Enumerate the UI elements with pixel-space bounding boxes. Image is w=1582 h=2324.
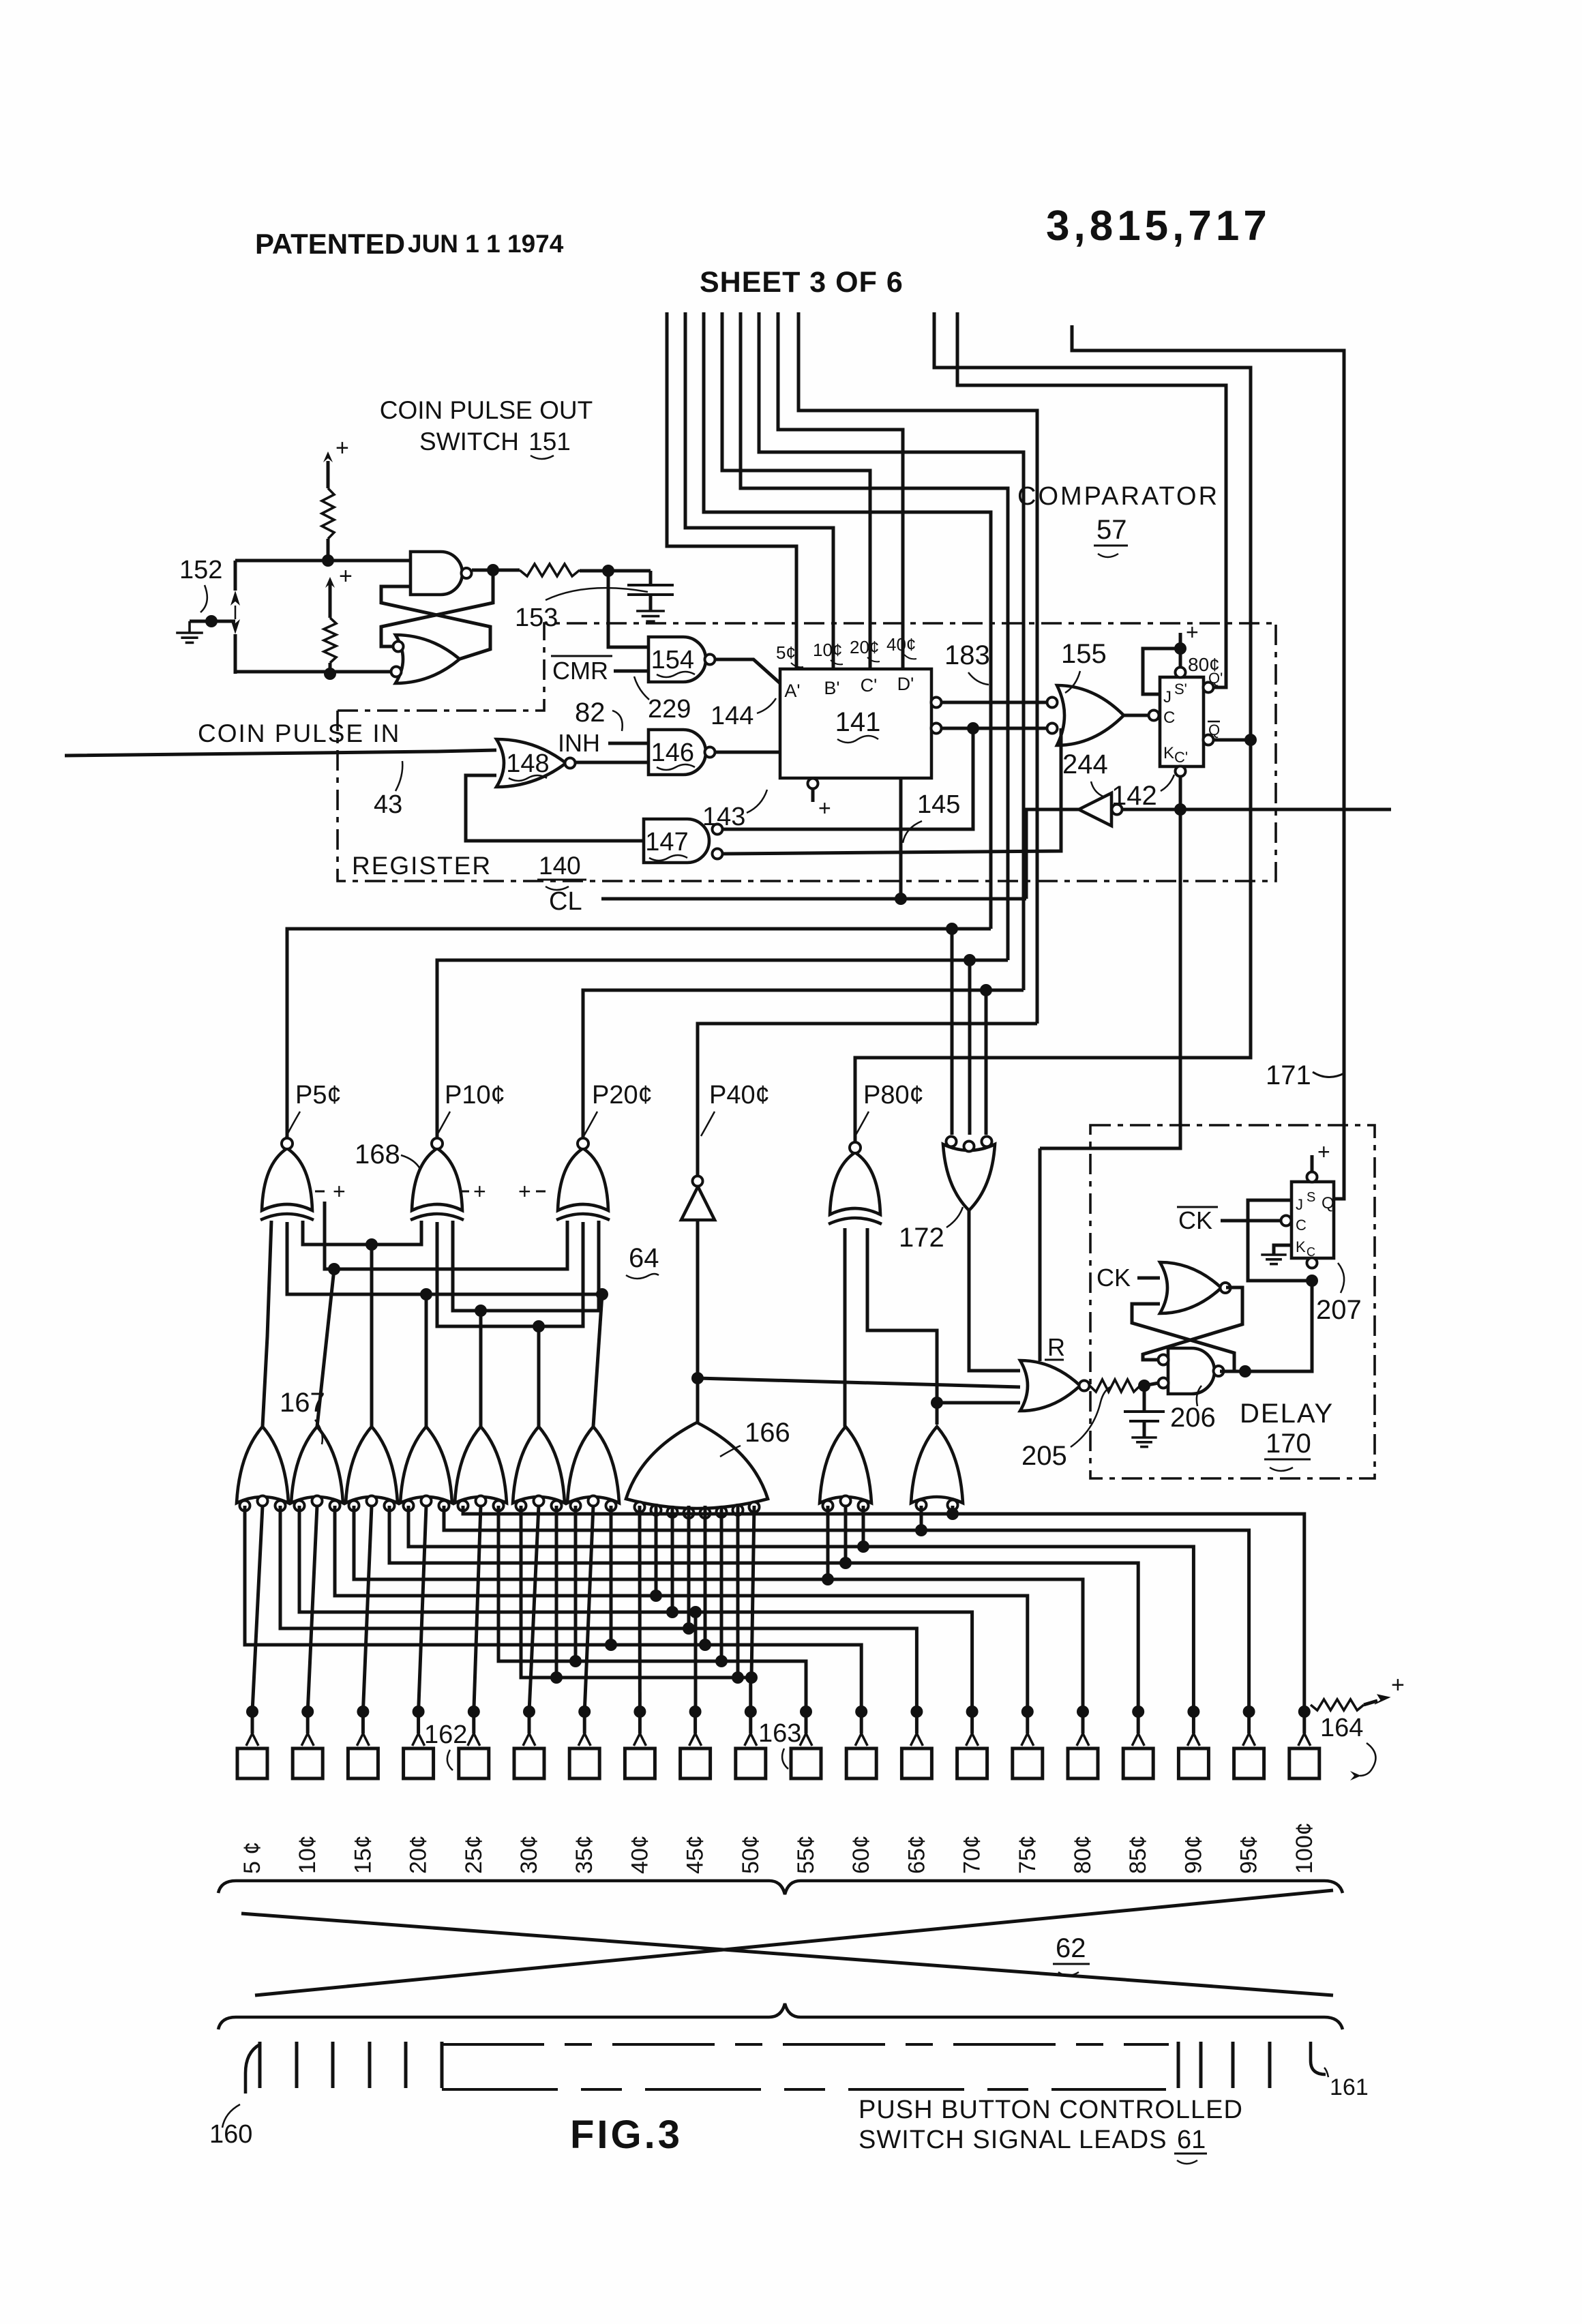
square riser 45c: [693, 1712, 697, 1733]
P80 right input path: [867, 1228, 937, 1425]
NAND gate 146: [648, 730, 706, 775]
square riser 60c: [860, 1712, 863, 1733]
plus mark P10: [460, 1191, 469, 1193]
svg-text:SWITCH SIGNAL LEADS: SWITCH SIGNAL LEADS: [859, 2126, 1167, 2154]
junction dot square 10 riser: [745, 1705, 757, 1718]
fan riser 166 in1 to square8: [638, 1506, 642, 1712]
svg-text:3,815,717: 3,815,717: [1046, 203, 1271, 250]
OR gate 172 pointing down: [943, 1144, 995, 1210]
fan tap riser x986: [671, 1506, 674, 1612]
svg-text:70¢: 70¢: [959, 1835, 985, 1874]
svg-text:+: +: [1391, 1672, 1405, 1698]
bus wire 6: [759, 312, 1024, 990]
junction dot on 166 riser: [691, 1372, 704, 1384]
switch square 25c: [459, 1748, 489, 1778]
web P5 left to gate1: [263, 1221, 271, 1427]
fan tap riser x1058: [720, 1506, 723, 1661]
svg-text:10¢: 10¢: [295, 1835, 320, 1874]
web drop to gate5: [479, 1311, 483, 1427]
svg-text:20¢: 20¢: [406, 1835, 432, 1874]
inverter 244: [1079, 793, 1111, 826]
FF 142 J loop: [1143, 649, 1180, 694]
switch square 90c: [1178, 1748, 1208, 1778]
ground below capacitor: [636, 610, 665, 612]
switch square 55c: [791, 1748, 821, 1778]
gate 172 input risers: [951, 929, 954, 1135]
svg-text:S': S': [1174, 681, 1187, 698]
FF 142 output bubbles: [1204, 683, 1214, 693]
square riser 35c: [583, 1712, 586, 1733]
NAND gate 147 with two outputs: [644, 819, 709, 863]
svg-text:COIN PULSE OUT: COIN PULSE OUT: [380, 396, 593, 424]
register block 141: [780, 669, 931, 778]
svg-text:64: 64: [629, 1243, 659, 1273]
gate 2 middle riser: [308, 1506, 317, 1712]
ground at switch 152: [188, 621, 191, 633]
square riser 15c: [361, 1712, 365, 1733]
switch square 85c: [1123, 1748, 1153, 1778]
FF 207 box: [1292, 1182, 1334, 1258]
svg-text:171: 171: [1266, 1060, 1311, 1090]
FF 207 J loop: [1248, 1200, 1312, 1281]
OR gate bottom row 5: [455, 1427, 507, 1503]
svg-text:153: 153: [515, 604, 558, 632]
svg-text:+: +: [473, 1179, 486, 1204]
junction dot H3 gate7: [596, 1288, 608, 1300]
wire 148 lower input loop: [466, 775, 644, 841]
wire CK to NOR: [1137, 1277, 1160, 1280]
square riser 20c: [417, 1712, 420, 1733]
bus wire 2: [685, 312, 833, 669]
wire CMR to 154: [614, 670, 648, 673]
svg-text:10¢: 10¢: [813, 640, 842, 660]
wire gate10 riser to 173: [937, 1401, 1020, 1405]
OR gate bottom row 6: [513, 1427, 565, 1503]
fan row 10: [498, 1506, 806, 1712]
svg-text:152: 152: [179, 556, 222, 584]
svg-text:20¢: 20¢: [850, 637, 879, 657]
fan tap riser x1214: [826, 1506, 830, 1579]
svg-text:80¢: 80¢: [1070, 1835, 1096, 1874]
svg-text:P5¢: P5¢: [295, 1081, 342, 1109]
wire INH to 146: [608, 742, 648, 745]
fan row 3: [408, 1506, 1193, 1712]
svg-text:J: J: [1296, 1196, 1303, 1213]
svg-text:B': B': [824, 678, 839, 698]
OR gate bottom row 4: [400, 1427, 452, 1503]
gate 173 top input: [1039, 1148, 1042, 1361]
CL wire: [601, 897, 1026, 901]
OR gate bottom row 10: [911, 1427, 963, 1503]
XOR gate P5: [262, 1148, 312, 1210]
svg-text:141: 141: [835, 707, 881, 737]
OR gate bottom row 7: [567, 1427, 619, 1503]
NAND latch gate upper: [411, 552, 462, 595]
gate 172 output wire: [969, 1210, 1020, 1371]
resistor 205: [1090, 1380, 1140, 1392]
svg-text:166: 166: [745, 1418, 790, 1448]
wire 141 pin down to CL: [899, 778, 903, 899]
svg-text:80¢: 80¢: [1188, 654, 1220, 675]
svg-text:164: 164: [1320, 1714, 1363, 1742]
junction dot gate10 riser to 173: [931, 1397, 943, 1409]
svg-text:K: K: [1296, 1238, 1306, 1255]
svg-text:170: 170: [1266, 1429, 1311, 1459]
lead vertical left of dash: [441, 2042, 444, 2088]
switch square 30c: [514, 1748, 544, 1778]
svg-text:5 ¢: 5 ¢: [239, 1842, 265, 1874]
web drop to gate2: [317, 1269, 334, 1427]
web drop to gate7: [593, 1294, 602, 1427]
block 141 bottom bubble and +: [808, 779, 818, 789]
svg-text:155: 155: [1061, 639, 1107, 669]
wire switch to NAND input: [235, 559, 411, 563]
gate 6 middle riser: [529, 1506, 539, 1712]
junction dot on lower 141 wire: [967, 722, 979, 734]
fan tap riser x1351: [920, 1506, 923, 1530]
svg-text:205: 205: [1021, 1441, 1067, 1471]
svg-text:C: C: [1163, 709, 1175, 727]
OR gate bottom row 2: [291, 1427, 343, 1503]
fan riser 166 in8: [751, 1506, 754, 1678]
svg-text:161: 161: [1330, 2074, 1369, 2100]
svg-text:82: 82: [575, 698, 606, 728]
resistor R-b vertical: [324, 618, 336, 663]
junction dot after resistor: [602, 565, 614, 577]
svg-text:160: 160: [209, 2120, 252, 2149]
fan row 4: [389, 1506, 1138, 1712]
svg-text:SHEET 3 OF 6: SHEET 3 OF 6: [700, 266, 904, 299]
junction dot latch top: [322, 554, 334, 567]
web drop to gate3: [370, 1245, 374, 1427]
svg-text:PUSH BUTTON CONTROLLED: PUSH BUTTON CONTROLLED: [859, 2096, 1243, 2124]
junction dot square 5 riser: [468, 1705, 480, 1718]
svg-text:+: +: [333, 1179, 346, 1204]
P40 inverter input riser: [696, 1220, 700, 1378]
switch 152 ground wire: [190, 620, 235, 623]
wire 147 top output: [723, 728, 973, 829]
svg-text:+: +: [1317, 1139, 1330, 1164]
svg-text:163: 163: [758, 1719, 801, 1748]
resistor R-a vertical: [322, 488, 334, 539]
wide OR gate 166: [626, 1422, 768, 1508]
bus wire right W_B to P80: [855, 312, 1251, 1148]
svg-text:168: 168: [355, 1139, 400, 1170]
FF 207 top bubble and +: [1307, 1172, 1317, 1182]
NAND gate 154: [648, 637, 706, 682]
svg-text:61: 61: [1177, 2126, 1206, 2154]
fan row 7: [299, 1506, 972, 1712]
square riser 10c: [306, 1712, 310, 1733]
svg-text:172: 172: [899, 1223, 944, 1253]
junction dot inverter line: [1174, 803, 1186, 816]
switch square 80c: [1068, 1748, 1098, 1778]
svg-text:15¢: 15¢: [350, 1835, 376, 1874]
junction dot H4 gate5: [475, 1305, 487, 1317]
square riser 40c: [638, 1712, 642, 1733]
resistor 164 and + arrow: [1311, 1699, 1364, 1710]
switch square 10c: [293, 1748, 323, 1778]
switch square 20c: [404, 1748, 434, 1778]
junction dot square 6 riser: [523, 1705, 535, 1718]
svg-text:SWITCH: SWITCH: [419, 428, 519, 456]
svg-text:P20¢: P20¢: [592, 1081, 653, 1109]
lead hook left: [245, 2044, 260, 2094]
web drop to gate6: [537, 1326, 541, 1427]
gate 7 middle riser: [584, 1506, 593, 1712]
P20 output line: [583, 990, 1024, 1138]
square riser 55c: [805, 1712, 808, 1733]
square riser 90c: [1192, 1712, 1195, 1733]
lead dash line top: [442, 2043, 1169, 2046]
NOR gate 173: [1020, 1360, 1080, 1411]
square riser 50c: [749, 1712, 752, 1733]
bus wire right W_C to FF142 Q: [957, 312, 1226, 687]
junction dot square 15 riser: [1021, 1705, 1034, 1718]
svg-text:206: 206: [1170, 1403, 1216, 1433]
square riser 95c: [1247, 1712, 1251, 1733]
fan tap riser x896: [610, 1506, 613, 1645]
cross line 2: [255, 1890, 1333, 1995]
wire 148 to 146: [575, 761, 648, 764]
switch square 15c: [348, 1748, 378, 1778]
inverter 64 P40: [681, 1187, 715, 1220]
junction dot 206 output: [1239, 1365, 1251, 1377]
svg-text:85¢: 85¢: [1125, 1835, 1151, 1874]
square riser 100c: [1302, 1712, 1306, 1733]
fan tap riser x962: [655, 1506, 658, 1596]
fan tap riser x816: [555, 1506, 558, 1678]
svg-text:30¢: 30¢: [516, 1835, 542, 1874]
gate 166 output riser: [696, 1378, 700, 1422]
svg-text:INH: INH: [558, 729, 600, 757]
svg-text:55¢: 55¢: [793, 1835, 819, 1874]
NOR latch gate lower: [395, 635, 460, 683]
junction dot 205: [1138, 1380, 1150, 1392]
FF 207 bottom bubble: [1307, 1258, 1317, 1268]
P80 output riser: [854, 1058, 857, 1142]
svg-text:229: 229: [648, 695, 691, 724]
junction dot square 19 riser: [1243, 1705, 1255, 1718]
svg-text:+: +: [335, 435, 349, 461]
svg-text:CK: CK: [1096, 1264, 1131, 1292]
junction dot CL and 141: [895, 893, 907, 905]
svg-text:+: +: [518, 1179, 531, 1204]
svg-text:S: S: [1307, 1190, 1315, 1205]
svg-text:100¢: 100¢: [1292, 1822, 1317, 1874]
svg-text:35¢: 35¢: [571, 1835, 597, 1874]
svg-text:D': D': [897, 674, 914, 694]
wire switch to NOR input: [235, 670, 391, 674]
P5 output line: [287, 929, 991, 1138]
wire 146 output to 141: [715, 751, 780, 754]
svg-text:146: 146: [651, 739, 694, 767]
switch square 70c: [957, 1748, 987, 1778]
svg-text:DELAY: DELAY: [1240, 1399, 1334, 1429]
wire 206 to FF207: [1220, 1281, 1312, 1371]
square riser 70c: [970, 1712, 974, 1733]
gate 3 middle riser: [363, 1506, 372, 1712]
block 141 output bubbles: [931, 698, 942, 708]
junction dot latch bottom: [324, 668, 336, 680]
junction dots gate 172 inputs: [946, 923, 958, 935]
wire FF142 down to delay: [1040, 809, 1180, 1148]
svg-text:Q: Q: [1322, 1194, 1334, 1212]
svg-text:CL: CL: [549, 887, 582, 916]
wire 205 to 206: [1144, 1383, 1159, 1386]
XOR gate P10: [412, 1148, 462, 1210]
capacitor 205: [1143, 1386, 1146, 1410]
svg-text:60¢: 60¢: [848, 1835, 874, 1874]
OR gate bottom row 1: [237, 1427, 288, 1503]
svg-text:95¢: 95¢: [1236, 1835, 1262, 1874]
FF 142 Qbar wire: [1213, 739, 1251, 742]
fan row 9: [245, 1506, 861, 1712]
svg-text:75¢: 75¢: [1015, 1835, 1041, 1874]
fan tap riser x1010: [687, 1506, 691, 1628]
fan tap riser x1082: [736, 1506, 740, 1678]
NOR gate CK: [1160, 1262, 1221, 1313]
wire to capacitor: [580, 569, 651, 573]
wire junction down to gate 154: [608, 571, 648, 647]
svg-text:+: +: [818, 796, 831, 820]
svg-text:C': C': [861, 675, 878, 696]
bus wire 5: [741, 312, 1008, 960]
coin pulse in line: [65, 750, 496, 756]
svg-text:FIG.3: FIG.3: [570, 2113, 683, 2157]
svg-text:COMPARATOR: COMPARATOR: [1017, 482, 1219, 511]
lower brace: [218, 2003, 1343, 2029]
svg-text:145: 145: [917, 790, 960, 819]
gate 5 middle riser: [474, 1506, 481, 1712]
XOR gate P20: [558, 1148, 608, 1210]
NAND gate 206: [1168, 1348, 1214, 1394]
bus wire 8: [799, 312, 1037, 1024]
switch 152 pole wire: [234, 561, 237, 591]
svg-text:57: 57: [1096, 515, 1127, 545]
svg-text:P80¢: P80¢: [863, 1081, 924, 1109]
svg-text:50¢: 50¢: [738, 1835, 764, 1874]
svg-text:40¢: 40¢: [627, 1835, 653, 1874]
svg-text:154: 154: [651, 646, 694, 674]
junction dot square 7 riser: [578, 1705, 591, 1718]
svg-text:45¢: 45¢: [683, 1835, 708, 1874]
svg-text:COIN PULSE IN: COIN PULSE IN: [198, 719, 400, 747]
svg-text:148: 148: [506, 749, 549, 778]
junction dot square 8 riser: [633, 1705, 646, 1718]
delay 170 dashed box: [1090, 1125, 1375, 1478]
square riser 5c: [251, 1712, 254, 1733]
junction dot square 13 riser: [910, 1705, 923, 1718]
svg-text:J: J: [1163, 688, 1171, 706]
svg-text:183: 183: [944, 640, 990, 670]
svg-text:244: 244: [1062, 749, 1108, 779]
fan tap riser x1240: [844, 1506, 848, 1563]
junction dot square 16 riser: [1077, 1705, 1089, 1718]
fan tap riser x1266: [862, 1506, 865, 1547]
junction dot H3 gate4: [420, 1288, 432, 1300]
bus wire right W_A long vertical 171: [1072, 325, 1344, 1199]
svg-text:P40¢: P40¢: [709, 1081, 770, 1109]
fan tap riser x1034: [704, 1506, 707, 1645]
fan row 2: [444, 1506, 1249, 1712]
lead ticks left: [258, 2042, 262, 2088]
square riser 85c: [1137, 1712, 1140, 1733]
wire NAND out: [472, 569, 520, 572]
gate 9 output riser to P80: [844, 1228, 847, 1427]
wires 141 to OR 155: [942, 701, 1047, 704]
switch square 40c: [625, 1748, 655, 1778]
square 9 riser up: [694, 1612, 698, 1712]
lead hook right: [1311, 2042, 1326, 2074]
switch square 60c: [846, 1748, 876, 1778]
svg-text:25¢: 25¢: [461, 1835, 487, 1874]
svg-text:162: 162: [424, 1720, 467, 1749]
switch square 75c: [1013, 1748, 1043, 1778]
fan tap riser x844: [574, 1506, 578, 1661]
junction dot square 4 riser: [413, 1705, 425, 1718]
capacitor ground stem: [649, 595, 653, 611]
cross coupling delay latch: [1143, 1287, 1242, 1360]
web row H5: [437, 1222, 583, 1326]
switch square 35c: [569, 1748, 599, 1778]
wire 155 to FF 142: [1124, 714, 1148, 717]
junction dot H2 gate2: [328, 1263, 340, 1275]
square riser 65c: [915, 1712, 919, 1733]
cross line 1: [241, 1913, 1333, 1995]
switch square 100c: [1289, 1748, 1319, 1778]
register 140 dashed box: [338, 623, 1276, 711]
web drop to gate4: [425, 1294, 428, 1427]
XOR gate P80: [830, 1152, 880, 1215]
wire CL up to inverter: [1026, 809, 1079, 899]
wire 154 output to block 141: [715, 659, 780, 683]
svg-text:5¢: 5¢: [776, 642, 796, 663]
web row H4: [453, 1221, 599, 1311]
svg-text:R: R: [1047, 1333, 1065, 1361]
wire CKbar to FF207: [1221, 1219, 1281, 1223]
svg-text:143: 143: [702, 803, 745, 831]
junction dot square 17 riser: [1132, 1705, 1144, 1718]
svg-text:A': A': [784, 681, 800, 701]
resistor 153 horizontal: [520, 564, 580, 576]
lead ticks right: [1177, 2042, 1180, 2088]
wire 166 riser to 173: [698, 1378, 1020, 1387]
square riser 75c: [1026, 1712, 1029, 1733]
bus wire 4: [722, 312, 870, 669]
svg-text:65¢: 65¢: [904, 1835, 929, 1874]
svg-text:CK: CK: [1178, 1206, 1212, 1234]
junction dot NAND output: [487, 564, 499, 576]
junction dot square 2 riser: [301, 1705, 314, 1718]
gate 4 middle riser: [419, 1506, 426, 1712]
junction dot square 12 riser: [855, 1705, 867, 1718]
svg-text:207: 207: [1316, 1295, 1362, 1325]
wire 147 bottom output: [723, 728, 1061, 854]
switch square 95c: [1234, 1748, 1264, 1778]
junction dot square 11 riser: [800, 1705, 812, 1718]
fan row 1: [463, 1506, 1304, 1712]
switch square 50c: [736, 1748, 766, 1778]
junction dot in8: [745, 1671, 758, 1684]
OR gate bottom row 3: [346, 1427, 398, 1503]
switch 152 contacts: [230, 591, 240, 606]
svg-text:90¢: 90¢: [1180, 1835, 1206, 1874]
square riser 30c: [528, 1712, 531, 1733]
svg-text:+: +: [339, 563, 353, 589]
svg-text:CMR: CMR: [552, 657, 608, 685]
square riser 80c: [1081, 1712, 1085, 1733]
